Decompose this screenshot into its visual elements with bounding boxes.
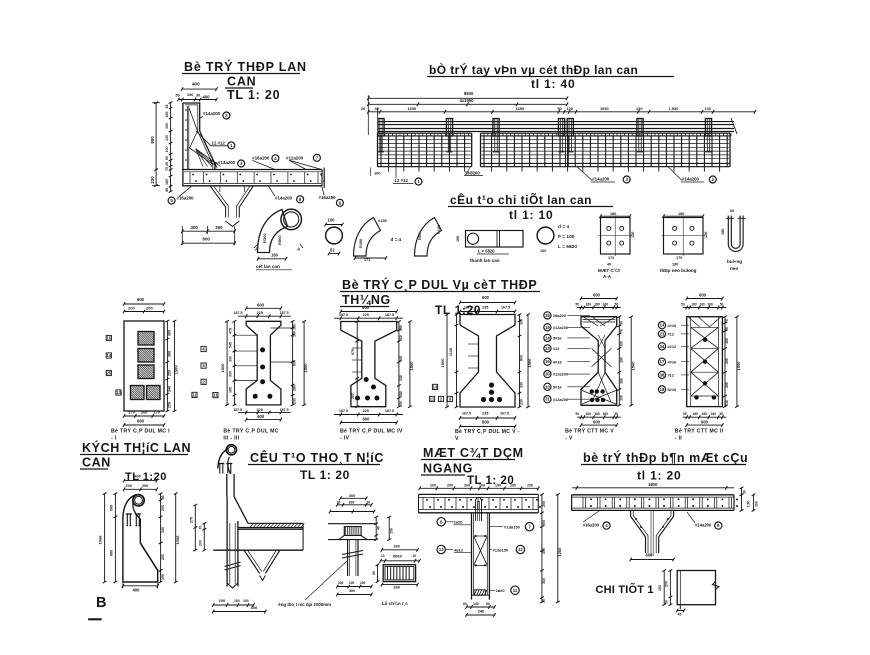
slab stirrups: [189, 172, 191, 184]
svg-text:2#16: 2#16: [668, 323, 677, 328]
svg-text:250: 250: [168, 370, 172, 376]
svg-text:TL 1: 20: TL 1: 20: [467, 475, 514, 487]
svg-text:100: 100: [293, 331, 297, 337]
svg-text:1500: 1500: [174, 365, 179, 375]
svg-text:50: 50: [575, 412, 579, 416]
svg-text:25: 25: [165, 105, 169, 109]
svg-text:1500: 1500: [409, 361, 414, 371]
svg-text:45: 45: [678, 613, 682, 617]
drain funnel below slab: [210, 186, 226, 218]
svg-text:60: 60: [730, 209, 734, 213]
svg-text:Bè TRÝ CTT MC II: Bè TRÝ CTT MC II: [675, 428, 724, 435]
svg-text:#12a200: #12a200: [553, 397, 568, 402]
svg-text:300: 300: [349, 500, 355, 504]
svg-text:31: 31: [545, 397, 550, 402]
svg-text:30: 30: [742, 490, 746, 494]
svg-text:200: 200: [542, 501, 546, 507]
svg-text:#16a250: #16a250: [319, 195, 337, 200]
svg-text:400: 400: [192, 82, 200, 87]
svg-text:130: 130: [705, 106, 712, 111]
svg-text:tl 1: 40: tl 1: 40: [531, 77, 575, 91]
svg-text:8830: 8830: [464, 91, 474, 96]
svg-text:#150: #150: [378, 218, 388, 223]
svg-text:600: 600: [482, 420, 490, 425]
callout circles MC II: [658, 322, 665, 329]
svg-text:172: 172: [608, 256, 614, 260]
svg-text:190: 190: [495, 483, 501, 487]
svg-text:bè trÝ thÐp b¶n mÆt cÇu: bè trÝ thÐp b¶n mÆt cÇu: [583, 450, 748, 465]
svg-text:190: 190: [658, 585, 662, 591]
svg-text:130: 130: [165, 135, 169, 141]
svg-text:160: 160: [603, 412, 609, 416]
svg-text:bÒ trÝ tay vÞn vµ cét thÐp lan: bÒ trÝ tay vÞn vµ cét thÐp lan can: [429, 62, 638, 77]
bent bar loop at stem top: [476, 498, 482, 522]
svg-text:R50: R50: [418, 233, 422, 240]
right small dims ban mat cau: [741, 488, 743, 495]
pipe bottom arrow: [227, 583, 238, 588]
svg-text:4x1950: 4x1950: [460, 98, 475, 103]
svg-text:240: 240: [161, 527, 165, 533]
svg-text:200: 200: [725, 358, 729, 364]
svg-text:cét lan can: cét lan can: [256, 264, 280, 269]
funnel interior lines: [219, 186, 221, 192]
I-beam outline MC V DUL: [460, 315, 515, 408]
pipe break mark: [342, 551, 363, 555]
svg-text:bul«ng: bul«ng: [727, 259, 742, 264]
svg-text:10: 10: [381, 554, 385, 558]
wall haunch second slope: [201, 135, 217, 168]
svg-text:160: 160: [586, 302, 592, 306]
svg-text:185: 185: [229, 387, 233, 393]
svg-text:400: 400: [133, 588, 141, 593]
deck surface lines: [238, 527, 303, 529]
right dim chain MC IV: [398, 322, 400, 407]
svg-text:600: 600: [362, 305, 370, 310]
svg-text:900: 900: [293, 360, 297, 366]
svg-text:thanh lan can: thanh lan can: [470, 258, 500, 263]
svg-text:tl 1: 20: tl 1: 20: [637, 469, 681, 483]
stirrup fringe below band: [492, 167, 720, 172]
svg-text:Bè TRÝ CTT MC V: Bè TRÝ CTT MC V: [565, 428, 614, 435]
I-beam outline MC IV: [341, 322, 397, 407]
svg-text:167.5: 167.5: [464, 306, 473, 310]
web ticks MC IV: [352, 347, 362, 349]
svg-text:200: 200: [142, 484, 148, 488]
svg-text:12 #12: 12 #12: [395, 178, 409, 183]
svg-text:4ø12: 4ø12: [454, 547, 464, 552]
stem slope dots: [635, 518, 637, 520]
svg-text:100: 100: [540, 249, 546, 253]
svg-text:280: 280: [619, 357, 623, 363]
svg-text:100: 100: [165, 147, 169, 153]
svg-text:#13ø150: #13ø150: [504, 524, 521, 529]
svg-text:CÊU T¹O THO¸T N¦íC: CÊU T¹O THO¸T N¦íC: [250, 450, 384, 465]
right tags MC IV: [432, 384, 437, 389]
wall vertical rebar pair: [187, 106, 189, 170]
svg-text:600: 600: [257, 302, 265, 307]
svg-text:d = 4: d = 4: [391, 237, 402, 242]
svg-text:L = 5820: L = 5820: [478, 249, 495, 254]
svg-text:#14a200: #14a200: [218, 160, 236, 165]
left dim chain drain: [194, 505, 196, 550]
svg-text:200: 200: [128, 306, 135, 311]
svg-text:300: 300: [191, 225, 199, 230]
svg-text:600: 600: [137, 297, 145, 302]
svg-text:11: 11: [513, 588, 518, 593]
svg-text:190: 190: [187, 93, 193, 97]
svg-text:230: 230: [293, 398, 297, 404]
svg-text:#14a200: #14a200: [695, 522, 712, 527]
svg-text:167.5: 167.5: [500, 412, 509, 416]
svg-text:170: 170: [154, 411, 160, 415]
svg-text:50: 50: [176, 94, 180, 98]
svg-text:160: 160: [711, 412, 717, 416]
svg-text:250: 250: [168, 402, 172, 408]
grate funnel slopes: [339, 535, 345, 539]
svg-text:1130: 1130: [449, 348, 453, 356]
left dim chain MC V: [456, 315, 458, 408]
svg-text:#14a200: #14a200: [682, 177, 700, 182]
svg-text:38: 38: [660, 372, 665, 377]
svg-text:400: 400: [135, 475, 141, 479]
svg-text:300: 300: [349, 589, 355, 593]
svg-text:380: 380: [168, 351, 172, 357]
svg-text:500: 500: [109, 505, 113, 511]
right dim chain MC V CTT: [618, 317, 620, 406]
post neck curve: [123, 495, 137, 518]
svg-text:13: 13: [116, 390, 121, 395]
right dim chain MC V: [519, 315, 521, 408]
anchor plate thep neo bulong: [664, 218, 704, 255]
svg-text:#9a200: #9a200: [553, 313, 566, 318]
wall outline: [183, 103, 215, 170]
rebar dots MC II: [703, 338, 707, 342]
svg-text:300: 300: [215, 225, 223, 230]
svg-text:170: 170: [676, 256, 682, 260]
svg-text:187.5: 187.5: [339, 313, 348, 317]
svg-text:50: 50: [683, 412, 687, 416]
svg-text:600: 600: [482, 295, 490, 300]
left outer dim chain (800/230): [155, 103, 157, 186]
svg-text:200: 200: [754, 501, 758, 507]
svg-text:160: 160: [702, 412, 708, 416]
post body outline: [123, 517, 158, 582]
svg-text:280: 280: [399, 391, 403, 397]
svg-text:260: 260: [394, 545, 400, 549]
left dim chain MC III: [233, 321, 235, 405]
svg-text:1.50: 1.50: [747, 501, 751, 508]
svg-text:70: 70: [619, 329, 623, 333]
svg-text:CAN: CAN: [227, 75, 256, 89]
strand ducts MC V: [489, 382, 494, 387]
svg-text:14: 14: [106, 353, 111, 358]
svg-text:50: 50: [575, 302, 579, 306]
svg-text:- IV: - IV: [340, 436, 350, 442]
deck wearing hatch band: [248, 522, 303, 524]
svg-text:KÝCH TH¦íC LAN: KÝCH TH¦íC LAN: [82, 440, 191, 455]
svg-text:225: 225: [257, 311, 263, 315]
svg-text:183: 183: [165, 112, 169, 118]
grate on deck: [344, 527, 361, 536]
svg-text:tl 1: 10: tl 1: 10: [509, 208, 553, 222]
svg-text:30: 30: [545, 372, 550, 377]
svg-text:225: 225: [363, 313, 369, 317]
svg-text:50: 50: [681, 302, 685, 306]
svg-text:235: 235: [482, 306, 488, 310]
svg-text:19: 19: [545, 325, 550, 330]
callout circles MC V CTT: [544, 312, 551, 319]
svg-text:#12ø150: #12ø150: [493, 547, 510, 552]
svg-text:360: 360: [542, 578, 546, 584]
svg-text:Bè TRÝ C¸P DUL MC V -: Bè TRÝ C¸P DUL MC V -: [455, 428, 520, 435]
svg-text:225: 225: [257, 408, 263, 412]
wall inner face lines: [185, 105, 213, 170]
svg-text:600: 600: [137, 419, 145, 424]
svg-text:100: 100: [338, 581, 344, 585]
stirrup crosses in web: [592, 348, 612, 367]
callout 5 #16a200: [168, 197, 175, 204]
svg-text:Bè TRÝ THÐP LAN: Bè TRÝ THÐP LAN: [184, 59, 307, 74]
bulb stirrup fan: [582, 391, 616, 405]
svg-text:150: 150: [165, 123, 169, 129]
slab right edge drain: [302, 523, 304, 550]
svg-text:300: 300: [349, 494, 355, 498]
I-beam outline MC V CTT: [581, 317, 617, 406]
svg-text:380: 380: [619, 378, 623, 384]
deck slab band: [572, 494, 734, 496]
rail bar thanh lan can: [466, 231, 524, 248]
svg-text:300: 300: [725, 338, 729, 344]
slab outline: [182, 169, 322, 171]
svg-text:30: 30: [619, 321, 623, 325]
stirrup fringe below band: [389, 167, 465, 172]
svg-text:1260: 1260: [557, 547, 562, 557]
svg-text:200: 200: [447, 483, 453, 487]
svg-text:26: 26: [161, 496, 165, 500]
band top hook ticks: [484, 133, 731, 138]
rail elbow detail 1: [354, 218, 381, 257]
svg-text:187.5: 187.5: [280, 311, 289, 315]
U anchor bolt: [728, 216, 743, 252]
svg-text:100: 100: [243, 599, 249, 603]
svg-text:400: 400: [203, 94, 211, 99]
svg-text:600: 600: [699, 293, 707, 298]
svg-text:50: 50: [664, 600, 668, 604]
svg-text:#12a200: #12a200: [553, 372, 568, 377]
svg-text:180: 180: [594, 412, 600, 416]
svg-text:180: 180: [678, 212, 684, 216]
post head circle: [133, 495, 144, 506]
right dim chain MC I: [166, 321, 168, 411]
rebar fan into haunch: [196, 149, 203, 167]
svg-text:R100: R100: [437, 225, 441, 234]
wall stirrup dots: [185, 109, 187, 111]
anchor block hatch 1: [138, 332, 154, 346]
band top hook ticks: [381, 133, 468, 138]
svg-text:#12: #12: [668, 373, 675, 378]
anchor bolts in post: [126, 514, 128, 525]
svg-text:600: 600: [203, 237, 211, 242]
svg-text:230: 230: [520, 399, 524, 405]
funnel bottom arrow: [226, 221, 240, 227]
svg-text:350: 350: [542, 548, 546, 554]
svg-text:100: 100: [234, 599, 240, 603]
svg-text:100: 100: [328, 218, 336, 223]
svg-text:150: 150: [293, 324, 297, 330]
svg-text:#16a200: #16a200: [583, 522, 600, 527]
svg-text:120: 120: [704, 232, 708, 238]
svg-text:CHI TIÕT 1: CHI TIÕT 1: [596, 583, 654, 596]
svg-text:2ø20: 2ø20: [453, 520, 463, 525]
svg-text:MÆT C¾T DÇM: MÆT C¾T DÇM: [423, 446, 524, 460]
band horizontal rebar: [482, 139, 730, 141]
svg-text:Bè TRÝ C¸P DUL MC I: Bè TRÝ C¸P DUL MC I: [111, 428, 170, 435]
svg-text:50: 50: [486, 602, 490, 606]
drain pipe vertical: [347, 540, 349, 576]
curved rail post detail (cat lan can): [258, 210, 288, 253]
svg-text:340: 340: [168, 386, 172, 392]
svg-text:70: 70: [198, 526, 202, 530]
svg-text:167.5: 167.5: [501, 306, 510, 310]
svg-text:187.5: 187.5: [234, 311, 243, 315]
svg-text:25: 25: [165, 162, 169, 166]
svg-text:200: 200: [146, 306, 153, 311]
svg-text:- II: - II: [675, 436, 683, 442]
parapet band segment 1: [378, 132, 472, 134]
parapet band segment 2: [481, 132, 731, 134]
drain pipe verticals: [226, 497, 228, 587]
svg-text:11: 11: [192, 392, 197, 397]
svg-text:1500: 1500: [630, 361, 635, 371]
chi tiet dims: [663, 571, 665, 605]
left inner dim chain: [170, 103, 172, 192]
svg-text:52: 52: [330, 248, 335, 253]
expansion joint lines: [565, 136, 567, 167]
left tag MC III: [213, 393, 218, 398]
band vertical stirrups: [381, 136, 465, 166]
svg-text:30: 30: [725, 327, 729, 331]
svg-text:#16a200: #16a200: [252, 155, 270, 160]
svg-text:1650: 1650: [516, 106, 525, 111]
svg-text:60: 60: [463, 602, 467, 606]
svg-text:èng tho¸t n­íc dµi 2000mm: èng tho¸t n­íc dµi 2000mm: [278, 602, 331, 607]
stem dots: [475, 535, 477, 537]
svg-text:16: 16: [545, 359, 550, 364]
svg-text:V: V: [455, 436, 459, 442]
svg-text:1066: 1066: [175, 535, 180, 545]
svg-text:5#16: 5#16: [553, 384, 562, 389]
svg-text:100: 100: [456, 236, 460, 242]
svg-text:neo: neo: [730, 266, 738, 271]
svg-text:14: 14: [660, 323, 665, 328]
svg-text:180: 180: [672, 263, 678, 267]
svg-text:200: 200: [161, 505, 165, 511]
svg-text:4#16: 4#16: [668, 359, 677, 364]
callout 6: [437, 518, 445, 526]
svg-text:12: 12: [518, 547, 523, 552]
wall rebar zigzag no.1: [189, 108, 213, 165]
svg-text:F = 100: F = 100: [558, 234, 575, 240]
svg-text:200: 200: [664, 581, 668, 587]
svg-text:230: 230: [150, 176, 155, 184]
svg-text:100: 100: [374, 170, 381, 175]
svg-text:15: 15: [106, 336, 111, 341]
svg-text:900: 900: [701, 419, 709, 424]
svg-text:11: 11: [213, 393, 218, 398]
svg-text:100: 100: [349, 581, 355, 585]
svg-text:14: 14: [545, 335, 550, 340]
svg-text:600: 600: [363, 416, 371, 421]
svg-text:180: 180: [165, 179, 169, 185]
slab edge verticals: [418, 494, 420, 512]
svg-text:Bè TRÝ C¸P DUL MC: Bè TRÝ C¸P DUL MC: [223, 428, 278, 435]
web ticks MC V: [468, 343, 479, 345]
drain post anchor hooks: [219, 464, 221, 474]
svg-text:545: 545: [229, 342, 233, 348]
anchor block hatch 2: [138, 349, 154, 363]
rail posts: [378, 119, 384, 137]
svg-text:187.5: 187.5: [233, 408, 242, 412]
left dim chain MC IV: [356, 322, 358, 407]
stem X bracing: [474, 536, 488, 565]
web tick marks: [234, 334, 257, 336]
svg-text:2#12: 2#12: [668, 344, 677, 349]
svg-text:20: 20: [361, 106, 365, 111]
svg-text:13: 13: [433, 384, 438, 389]
svg-text:1500: 1500: [303, 363, 308, 373]
anchor plate section A-A: [601, 218, 631, 255]
svg-text:1500: 1500: [527, 358, 532, 368]
slab stirrups dam ngang: [422, 497, 424, 509]
svg-text:150: 150: [389, 528, 393, 534]
svg-text:18: 18: [545, 313, 550, 318]
deck lines pipe detail: [328, 523, 376, 525]
rail end break: [731, 118, 737, 134]
slab bottom line drain: [213, 549, 303, 551]
drain post neck: [218, 449, 228, 469]
svg-text:240: 240: [478, 609, 485, 614]
svg-text:75: 75: [165, 167, 169, 171]
svg-text:150: 150: [161, 574, 165, 580]
handrail tubes: [378, 121, 735, 123]
svg-text:160: 160: [707, 302, 713, 306]
svg-text:cÊu t¹o chi tiÕt lan can: cÊu t¹o chi tiÕt lan can: [450, 192, 592, 207]
svg-text:12 #12: 12 #12: [212, 141, 226, 146]
callout 13 left mid: [437, 545, 445, 553]
svg-text:280: 280: [293, 385, 297, 391]
svg-text:800: 800: [399, 356, 403, 362]
right dim chain MC III: [292, 321, 294, 405]
svg-text:- V: - V: [565, 436, 573, 442]
stem center lines: [650, 510, 652, 556]
callout 7: [489, 526, 503, 528]
stem head below slab: [631, 510, 646, 553]
post head pipe circle: [281, 209, 302, 230]
svg-text:TL 1: 20: TL 1: 20: [227, 88, 280, 102]
svg-text:B: B: [96, 595, 106, 611]
svg-text:171: 171: [364, 258, 370, 262]
pipe break mark: [225, 562, 241, 567]
svg-text:200: 200: [198, 540, 202, 546]
svg-text:200: 200: [510, 483, 516, 487]
svg-text:160: 160: [586, 412, 592, 416]
right dim chain post: [160, 494, 162, 582]
right dim chain MC II: [724, 317, 726, 407]
band vertical stirrups: [484, 136, 727, 166]
svg-text:230: 230: [399, 375, 403, 381]
svg-text:150: 150: [399, 325, 403, 331]
svg-text:#14a200: #14a200: [275, 196, 293, 201]
